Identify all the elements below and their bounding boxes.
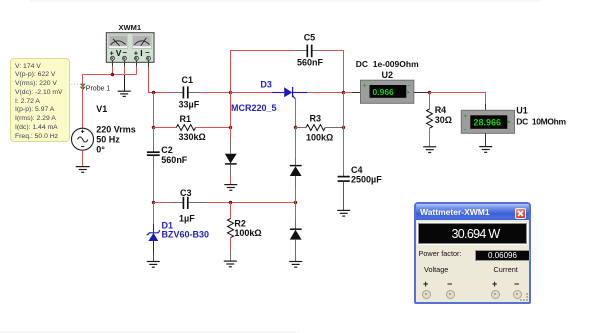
ground at D5: [289, 262, 302, 268]
wire I- down to main row: [149, 67, 154, 93]
svg-text:28.966: 28.966: [474, 118, 502, 128]
wire C5 right down: [322, 51, 344, 93]
junction C3 row left: [152, 201, 155, 204]
svg-text:XWM1: XWM1: [119, 23, 142, 32]
resistor R2: [228, 203, 234, 261]
junction main row left: [152, 91, 155, 94]
svg-text:MCR220_5: MCR220_5: [231, 103, 277, 113]
svg-text:-: -: [464, 127, 466, 134]
ground at wattmeter V-: [118, 91, 131, 96]
wire mid rail: [230, 93, 232, 128]
ground at mid diode: [224, 185, 237, 191]
wire V1 bottom: [82, 150, 84, 166]
close button: [515, 208, 527, 220]
svg-text:-: -: [408, 83, 410, 90]
resistor R1: [154, 125, 231, 131]
wire mid rail to diode: [230, 128, 232, 139]
wire C1 to mid rail: [200, 92, 231, 94]
wire wattmeter I+ lead: [136, 60, 138, 66]
source V1: [72, 128, 94, 150]
wire V1 top: [82, 75, 84, 129]
svg-text:Probe 1: Probe 1: [86, 86, 111, 93]
power factor label: [419, 249, 462, 258]
wire U2 left lead: [352, 92, 361, 94]
svg-text:100kΩ: 100kΩ: [234, 228, 261, 238]
voltage plus terminal: [422, 290, 431, 299]
faint toolbar remnant top edge: [30, 0, 540, 2]
wire main row left: [154, 92, 173, 94]
svg-text:I: I: [140, 48, 142, 58]
voltage label: [424, 265, 448, 274]
faint remnant bottom edge: [0, 332, 300, 333]
ground at D1: [147, 262, 160, 268]
svg-text:C3: C3: [180, 188, 192, 198]
wire left rail top: [153, 93, 155, 128]
voltage minus terminal: [446, 290, 455, 299]
svg-text:U1: U1: [516, 106, 528, 116]
svg-text:+: +: [464, 113, 468, 120]
wire D3 to C5 rail: [307, 92, 343, 94]
svg-text:V1: V1: [96, 104, 107, 114]
svg-text:100kΩ: 100kΩ: [306, 133, 333, 143]
svg-text:0°: 0°: [96, 144, 105, 154]
wire U2 to R4 junction: [428, 92, 431, 94]
junction R2 top: [229, 201, 232, 204]
zener D1: [147, 203, 160, 262]
title bar: [416, 204, 529, 220]
ground at R2: [224, 261, 237, 267]
wire wattmeter V+ lead: [112, 60, 114, 66]
junction R4: [428, 91, 431, 94]
junction R1 row right: [229, 126, 232, 129]
resistor R4: [427, 93, 433, 147]
voltmeter U1: [461, 110, 514, 133]
wire V- to ground: [124, 67, 126, 75]
wire D3 gate down: [295, 99, 297, 127]
svg-text:220 Vrms: 220 Vrms: [96, 124, 136, 134]
svg-text:D3: D3: [260, 80, 272, 90]
ground at V1: [76, 167, 90, 173]
leader line from tooltip to probe: [71, 83, 80, 85]
svg-text:C5: C5: [304, 33, 316, 43]
svg-text:33µF: 33µF: [179, 100, 200, 110]
ammeter U2: [361, 80, 414, 103]
ground at R4: [423, 147, 436, 153]
capacitor C3: [154, 197, 207, 209]
junction mid rail main row: [229, 91, 232, 94]
wire U1 top lead: [485, 104, 487, 110]
wire left rail to C2: [153, 128, 155, 147]
wire probe horizontal: [83, 74, 137, 76]
wattmeter panel window: [414, 202, 531, 304]
svg-text:−: −: [123, 48, 128, 57]
wire main row to U1 corner: [430, 93, 486, 105]
wire C5 rail down: [343, 93, 345, 128]
svg-text:1µF: 1µF: [179, 213, 195, 223]
svg-text:R4: R4: [435, 105, 447, 115]
wire main row to D3: [231, 92, 273, 94]
svg-text:V: V: [116, 48, 122, 58]
svg-text:−: −: [145, 48, 150, 57]
power factor display: [475, 250, 530, 261]
capacitor C4: [338, 172, 350, 211]
diode D5 (lower right, pointing up): [290, 203, 302, 262]
junction at V+: [111, 73, 114, 76]
current plus terminal: [491, 290, 500, 299]
SCR D3: [272, 87, 307, 99]
wattmeter XWM1: [106, 33, 154, 63]
wire U1 bottom lead: [485, 133, 487, 146]
junction C3 row right: [294, 201, 297, 204]
svg-text:U2: U2: [382, 70, 394, 80]
ground at U1: [479, 147, 492, 153]
svg-text:C2: C2: [161, 145, 173, 155]
junction R3 right: [342, 126, 345, 129]
wire wattmeter V- lead: [124, 60, 126, 66]
probe tooltip readout: [10, 58, 70, 142]
capacitor C5: [296, 45, 322, 58]
wire C3 row middle: [207, 202, 296, 204]
svg-text:R3: R3: [310, 114, 322, 124]
svg-text:R1: R1: [180, 114, 192, 124]
capacitor C2: [147, 146, 160, 170]
current minus terminal: [513, 290, 522, 299]
current label: [494, 265, 518, 274]
wire wattmeter I- lead: [148, 60, 150, 67]
probe Probe 1: [80, 84, 86, 91]
wire gate rail to diode D4: [295, 128, 297, 157]
svg-text:DC 10MOhm: DC 10MOhm: [516, 116, 566, 126]
diode D4 (upper right, pointing up): [290, 157, 302, 203]
svg-text:330kΩ: 330kΩ: [179, 132, 206, 142]
svg-text:560nF: 560nF: [161, 155, 188, 165]
diode D2 (mid): [225, 138, 237, 184]
power display: [418, 223, 527, 244]
wire C5 branch up: [231, 51, 297, 93]
wire main row to U2: [344, 92, 353, 94]
svg-text:DC 1e-009Ohm: DC 1e-009Ohm: [356, 59, 419, 69]
svg-text:2500µF: 2500µF: [351, 175, 382, 185]
junction R1 row left: [152, 126, 155, 129]
svg-text:C1: C1: [182, 75, 194, 85]
capacitor C1: [172, 86, 200, 98]
resize grip: [519, 292, 529, 302]
svg-text:BZV60-B30: BZV60-B30: [162, 230, 210, 240]
svg-text:560nF: 560nF: [297, 58, 324, 68]
junction gate R3 row: [294, 126, 297, 129]
ground at C4: [337, 210, 350, 216]
svg-text:50 Hz: 50 Hz: [96, 134, 120, 144]
wire U2 right lead: [414, 92, 429, 94]
wire to C4: [343, 128, 345, 172]
svg-text:30Ω: 30Ω: [435, 115, 452, 125]
svg-text:+: +: [363, 83, 367, 90]
resistor R3: [296, 125, 344, 131]
wire C2 to C3 row: [153, 170, 155, 203]
terminal signs: [423, 279, 428, 289]
svg-text:0.966: 0.966: [373, 87, 395, 97]
junction C5 rail main row: [342, 91, 345, 94]
